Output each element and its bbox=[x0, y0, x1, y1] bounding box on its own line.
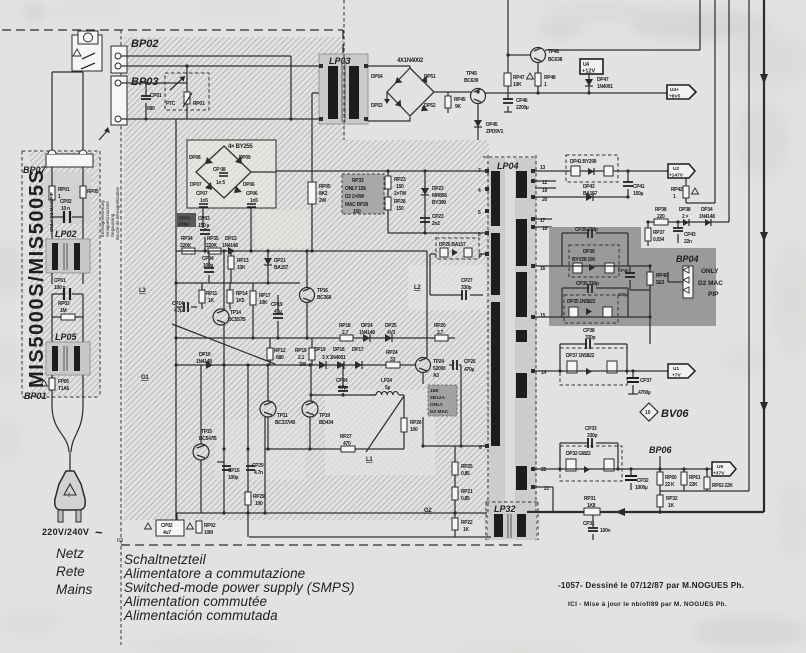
svg-text:220K: 220K bbox=[180, 243, 191, 249]
svg-text:U4+: U4+ bbox=[670, 87, 679, 93]
wire pin16 bbox=[535, 265, 650, 267]
svg-text:1n5: 1n5 bbox=[200, 198, 208, 204]
svg-text:DP24: DP24 bbox=[361, 323, 373, 329]
svg-text:2n2: 2n2 bbox=[432, 221, 440, 227]
light patch mid left bbox=[215, 420, 305, 480]
wire degauss left bbox=[51, 72, 53, 154]
svg-text:CP29: CP29 bbox=[252, 463, 264, 469]
wire top join bbox=[52, 71, 83, 73]
resistor RP02 bbox=[187, 523, 194, 529]
svg-text:DP39: DP39 bbox=[583, 249, 595, 255]
PTC arrow bbox=[170, 77, 184, 90]
stub pin18 bbox=[535, 226, 552, 228]
LP04 pin squares left bbox=[485, 169, 489, 173]
svg-text:220K: 220K bbox=[206, 243, 217, 249]
svg-text:2200µ: 2200µ bbox=[516, 105, 529, 111]
diode DP41 bbox=[588, 168, 594, 175]
svg-text:+8V5: +8V5 bbox=[669, 94, 681, 100]
svg-text:Alimentation commutée: Alimentation commutée bbox=[123, 594, 267, 609]
svg-text:+12V: +12V bbox=[582, 69, 595, 75]
svg-text:G1: G1 bbox=[141, 375, 149, 381]
resistor RP28 bbox=[385, 197, 391, 210]
pointer L1 bbox=[366, 396, 404, 452]
svg-text:LP32: LP32 bbox=[494, 504, 516, 514]
svg-text:470: 470 bbox=[343, 441, 351, 447]
svg-text:RP12: RP12 bbox=[274, 348, 286, 354]
svg-text:150: 150 bbox=[396, 206, 404, 212]
svg-text:DP17: DP17 bbox=[352, 347, 364, 353]
svg-text:ZPD9V1: ZPD9V1 bbox=[486, 129, 504, 135]
diode DP34 bbox=[705, 219, 711, 226]
connector BP02 bbox=[111, 46, 127, 73]
resistor RP14 bbox=[229, 283, 231, 309]
svg-text:TP45: TP45 bbox=[466, 71, 477, 77]
wire diode row y222 bbox=[648, 221, 729, 223]
resistor RP29 bbox=[245, 492, 251, 505]
resistor RP23 bbox=[387, 171, 389, 197]
svg-text:+147V: +147V bbox=[669, 173, 684, 179]
dashed box DP37 bbox=[560, 348, 627, 385]
wire TP24 down to pin8 bbox=[423, 372, 485, 446]
wire BP02 bottom rail bbox=[127, 65, 321, 67]
svg-text:DP53: DP53 bbox=[371, 103, 383, 109]
capacitor CP41 bbox=[627, 171, 629, 197]
svg-text:4.7n: 4.7n bbox=[254, 470, 263, 476]
stub pin12 bbox=[535, 180, 556, 182]
svg-text:RP03: RP03 bbox=[58, 301, 70, 307]
svg-text:CP41: CP41 bbox=[633, 184, 645, 190]
svg-text:CP03: CP03 bbox=[179, 216, 191, 221]
svg-text:CP02: CP02 bbox=[60, 199, 72, 205]
resistor RP37 bbox=[647, 222, 649, 246]
svg-text:LP03: LP03 bbox=[329, 56, 351, 66]
svg-text:1N4148: 1N4148 bbox=[699, 214, 715, 220]
svg-text:400µ: 400µ bbox=[618, 292, 628, 297]
resistor RP05a bbox=[80, 186, 86, 198]
svg-text:DP08: DP08 bbox=[189, 155, 201, 161]
capacitor CP32 bbox=[630, 469, 632, 490]
junction dots control bbox=[174, 281, 177, 284]
bridge box BY255 bbox=[187, 140, 276, 208]
svg-text:DP18: DP18 bbox=[333, 347, 345, 353]
svg-text:DP13: DP13 bbox=[225, 236, 237, 242]
svg-text:DP32 GI822: DP32 GI822 bbox=[566, 451, 591, 457]
capacitor CP23 bbox=[420, 218, 430, 222]
resistor RP31 bbox=[584, 508, 600, 515]
svg-text:L2: L2 bbox=[414, 285, 421, 291]
svg-text:1K8: 1K8 bbox=[587, 503, 596, 509]
resistor RP60 bbox=[659, 469, 661, 491]
capacitor CP15 bbox=[217, 461, 224, 463]
svg-text:BC337/40: BC337/40 bbox=[275, 420, 296, 426]
resistor RP48 bbox=[537, 62, 539, 93]
svg-text:BP04: BP04 bbox=[676, 254, 699, 264]
svg-text:RP63 22K: RP63 22K bbox=[712, 483, 733, 489]
svg-text:DP06: DP06 bbox=[243, 182, 255, 188]
svg-text:+7V: +7V bbox=[672, 373, 681, 379]
svg-text:L1: L1 bbox=[366, 457, 373, 463]
capacitor CP02b bbox=[176, 513, 178, 521]
svg-text:22K: 22K bbox=[689, 482, 698, 488]
svg-text:2W: 2W bbox=[319, 198, 326, 204]
svg-text:RP42: RP42 bbox=[671, 187, 683, 193]
wire pin22 +37V rail bbox=[535, 468, 712, 470]
wire BP07 to LP02 right bbox=[82, 167, 84, 239]
svg-text:ONLY: ONLY bbox=[430, 402, 444, 408]
svg-text:100: 100 bbox=[410, 427, 418, 433]
svg-text:CP39 330p: CP39 330p bbox=[575, 227, 598, 233]
svg-text:CP15: CP15 bbox=[228, 468, 240, 474]
dash-dot bottom border bbox=[121, 544, 525, 546]
stub pin17 bbox=[535, 218, 552, 220]
svg-text:1N4001: 1N4001 bbox=[597, 84, 613, 90]
svg-text:150: 150 bbox=[353, 209, 361, 215]
svg-text:LP04: LP04 bbox=[497, 161, 519, 171]
resistor RP13 bbox=[230, 251, 232, 283]
resistor RP19 bbox=[311, 338, 313, 365]
dashed box PTC bbox=[165, 73, 209, 110]
svg-text:1N4148: 1N4148 bbox=[359, 330, 375, 336]
svg-text:CP26: CP26 bbox=[464, 359, 476, 365]
svg-text:MIS5000S/MIS5005S: MIS5000S/MIS5005S bbox=[26, 168, 48, 388]
svg-text:0,85: 0,85 bbox=[461, 471, 470, 477]
svg-text:RP35: RP35 bbox=[207, 236, 219, 242]
svg-text:U2: U2 bbox=[673, 166, 679, 172]
output flag U2 +147V bbox=[668, 164, 695, 178]
svg-text:CP32: CP32 bbox=[637, 478, 649, 484]
svg-text:100: 100 bbox=[255, 501, 263, 507]
svg-text:PIP: PIP bbox=[708, 291, 719, 298]
svg-text:1n 5: 1n 5 bbox=[216, 180, 225, 186]
svg-text:Schaltnetzteil: Schaltnetzteil bbox=[124, 552, 207, 567]
transformer LP32 bbox=[486, 502, 538, 540]
svg-text:+37V: +37V bbox=[713, 471, 725, 477]
svg-text:5E3: 5E3 bbox=[656, 280, 665, 286]
svg-text:10K: 10K bbox=[259, 300, 268, 306]
svg-text:TP11: TP11 bbox=[277, 413, 288, 419]
hatched mains module bbox=[30, 152, 99, 396]
wire TP16 vertical bbox=[306, 251, 308, 338]
wire pin14 +7V rail bbox=[535, 370, 668, 372]
svg-text:~: ~ bbox=[95, 525, 103, 540]
svg-text:19: 19 bbox=[542, 188, 547, 194]
rail y338 bbox=[176, 337, 455, 339]
svg-text:CP23: CP23 bbox=[432, 214, 444, 220]
svg-text:RP38: RP38 bbox=[655, 207, 667, 213]
svg-text:10 n: 10 n bbox=[61, 206, 70, 212]
svg-text:U4: U4 bbox=[583, 62, 589, 68]
svg-text:2.7: 2.7 bbox=[342, 330, 349, 336]
svg-text:BA157: BA157 bbox=[274, 265, 289, 271]
transistor TP11 bbox=[260, 401, 276, 417]
svg-text:RP26: RP26 bbox=[410, 420, 422, 426]
wire pin15 bbox=[535, 316, 650, 318]
svg-text:DP34: DP34 bbox=[701, 207, 713, 213]
svg-text:RP23: RP23 bbox=[394, 177, 406, 183]
beacon BV06 bbox=[640, 403, 658, 421]
bottom rail y537 bbox=[249, 536, 491, 538]
wire bridge out right bbox=[251, 171, 276, 173]
wire TP48 base left bbox=[508, 54, 531, 56]
option box RP33 bbox=[342, 174, 384, 214]
svg-text:13: 13 bbox=[540, 165, 545, 171]
wire BP03 to LP03 bottom bbox=[127, 118, 321, 120]
resistor RP01 bbox=[49, 186, 55, 200]
svg-text:RP11: RP11 bbox=[206, 291, 218, 297]
bottom rail y513 bbox=[176, 512, 487, 514]
bridge DP06-DP09 bbox=[196, 146, 251, 198]
svg-text:1K: 1K bbox=[668, 503, 674, 509]
svg-text:DP51: DP51 bbox=[424, 74, 436, 80]
svg-text:CP01: CP01 bbox=[150, 93, 162, 99]
svg-text:4u7: 4u7 bbox=[163, 530, 171, 536]
capacitor CP43 bbox=[677, 222, 679, 243]
dashed box DP41 bbox=[566, 155, 618, 182]
svg-text:5µ: 5µ bbox=[385, 385, 390, 391]
svg-text:33: 33 bbox=[390, 357, 395, 363]
svg-text:3 X 1N4001: 3 X 1N4001 bbox=[322, 355, 346, 361]
svg-text:100p: 100p bbox=[228, 475, 238, 481]
wire row y395 bbox=[311, 394, 376, 396]
svg-text:PTC: PTC bbox=[166, 101, 176, 107]
svg-text:1M: 1M bbox=[60, 308, 66, 314]
svg-text:RP28: RP28 bbox=[394, 199, 406, 205]
svg-text:DP26 BA157: DP26 BA157 bbox=[439, 242, 466, 248]
plug prong left bbox=[58, 510, 63, 522]
svg-text:MR858: MR858 bbox=[432, 193, 447, 199]
bus line x749 bbox=[660, 0, 749, 491]
vertical x248 bbox=[247, 365, 249, 537]
svg-text:1n5: 1n5 bbox=[250, 198, 258, 204]
dashed box DP32 bbox=[560, 446, 622, 481]
svg-text:RP27: RP27 bbox=[340, 434, 352, 440]
rail y251 bbox=[176, 250, 427, 252]
svg-text:BC547B: BC547B bbox=[199, 436, 217, 442]
svg-text:DP45: DP45 bbox=[486, 122, 498, 128]
vertical from top x508 bbox=[507, 0, 509, 93]
svg-text:RP01: RP01 bbox=[58, 187, 70, 193]
svg-text:150 µ: 150 µ bbox=[198, 223, 210, 229]
svg-text:RP25: RP25 bbox=[461, 464, 473, 470]
svg-text:10M: 10M bbox=[204, 530, 213, 536]
resistor RP18 bbox=[340, 335, 353, 341]
svg-text:RP01: RP01 bbox=[193, 101, 205, 107]
transformer LP04 body bbox=[489, 158, 536, 540]
svg-text:DP54: DP54 bbox=[371, 74, 383, 80]
resistor RP21 bbox=[452, 487, 458, 500]
transformer LP03 bbox=[319, 54, 368, 124]
svg-text:D2 MAC: D2 MAC bbox=[430, 409, 449, 415]
svg-text:4.7µ: 4.7µ bbox=[174, 308, 183, 314]
vertical x265 bbox=[264, 417, 266, 513]
wire bridge to TP45 bbox=[434, 91, 471, 93]
wire TP48 collector to top bus bbox=[545, 0, 700, 50]
capacitor CP29 bbox=[246, 466, 255, 470]
svg-text:Mains: Mains bbox=[56, 582, 93, 597]
svg-text:20: 20 bbox=[542, 197, 547, 203]
resistor RP40 bbox=[649, 266, 651, 344]
svg-text:100n: 100n bbox=[600, 528, 610, 534]
vertical TP11-TP19 bbox=[268, 365, 311, 449]
LP04 primary winding bars bbox=[491, 171, 500, 226]
plug prong right bbox=[76, 510, 81, 522]
bus line x715 bbox=[714, 0, 716, 203]
dashed border left column bbox=[120, 30, 122, 645]
svg-text:ICI: ICI bbox=[117, 538, 123, 544]
svg-text:DP23: DP23 bbox=[432, 186, 444, 192]
svg-text:BP02: BP02 bbox=[131, 38, 159, 50]
main + rail to LP04 pin3 bbox=[276, 170, 485, 172]
svg-text:4V3: 4V3 bbox=[387, 330, 396, 336]
resistor RP45 bbox=[445, 96, 451, 108]
svg-text:RP21: RP21 bbox=[461, 489, 473, 495]
wire LP03 to bridge top bbox=[368, 66, 410, 69]
svg-text:U1: U1 bbox=[673, 366, 679, 372]
transistor TP15 bbox=[193, 444, 209, 460]
svg-text:!: ! bbox=[68, 493, 70, 499]
svg-text:RP31: RP31 bbox=[584, 496, 596, 502]
svg-text:DP25: DP25 bbox=[385, 323, 397, 329]
wire BP02 top bbox=[127, 56, 291, 119]
wire pin21 bbox=[535, 487, 553, 512]
svg-text:150µ: 150µ bbox=[633, 191, 643, 197]
wire LP03 to bridge bottom bbox=[368, 117, 410, 121]
svg-text:CP24: CP24 bbox=[336, 378, 348, 384]
resistor RP17 bbox=[252, 283, 254, 338]
pointer arrow to BP03 bbox=[99, 130, 108, 140]
LP04 secondary winding bars bbox=[516, 171, 527, 198]
svg-text:22n: 22n bbox=[684, 239, 692, 245]
svg-text:RP61: RP61 bbox=[689, 475, 701, 481]
resistor RP42 bbox=[686, 178, 715, 203]
svg-text:CP02: CP02 bbox=[161, 523, 173, 529]
svg-text:CP01: CP01 bbox=[54, 278, 66, 284]
svg-text:CP37: CP37 bbox=[640, 378, 652, 384]
wire y283 bbox=[176, 282, 300, 284]
svg-text:RP14: RP14 bbox=[236, 291, 248, 297]
svg-text:10K: 10K bbox=[513, 82, 522, 88]
bus line x764 with arrows bbox=[763, 0, 765, 512]
svg-text:RP22: RP22 bbox=[461, 520, 473, 526]
rail y365 bbox=[176, 364, 416, 366]
resistor RP20 bbox=[435, 335, 448, 341]
diode DP47 bbox=[588, 74, 590, 93]
svg-text:52000: 52000 bbox=[433, 366, 446, 372]
svg-text:-1057- Dessiné le 07/12/87 par: -1057- Dessiné le 07/12/87 par M.NOGUES … bbox=[558, 581, 744, 590]
svg-text:DP07: DP07 bbox=[190, 182, 202, 188]
resistor RP12 bbox=[269, 338, 271, 365]
svg-text:CP 08: CP 08 bbox=[213, 167, 226, 173]
svg-text:2.7: 2.7 bbox=[437, 330, 444, 336]
resistor RP26 bbox=[403, 395, 405, 449]
node bbox=[289, 117, 292, 120]
svg-text:RP34: RP34 bbox=[181, 236, 193, 242]
svg-text:Rete: Rete bbox=[56, 564, 85, 579]
hatched schematic area bbox=[124, 37, 489, 520]
svg-text:RP18: RP18 bbox=[339, 323, 351, 329]
svg-text:CP33: CP33 bbox=[585, 426, 597, 432]
option box 15E D2MAC bbox=[428, 385, 457, 416]
svg-text:DP41 BY299: DP41 BY299 bbox=[570, 159, 597, 165]
svg-text:1K: 1K bbox=[208, 298, 214, 304]
svg-text:RP45: RP45 bbox=[454, 97, 466, 103]
svg-text:3W: 3W bbox=[299, 362, 306, 368]
svg-text:LP05: LP05 bbox=[55, 332, 78, 342]
svg-text:DP10: DP10 bbox=[199, 352, 211, 358]
svg-text:TP15: TP15 bbox=[201, 429, 212, 435]
resistor RP47 bbox=[504, 73, 511, 86]
capacitor CP37 bbox=[632, 371, 634, 394]
svg-text:BP01: BP01 bbox=[24, 391, 47, 401]
svg-text:CP03: CP03 bbox=[198, 216, 210, 222]
svg-text:RP05: RP05 bbox=[319, 184, 331, 190]
svg-text:CP46: CP46 bbox=[516, 98, 528, 104]
svg-text:RP20: RP20 bbox=[434, 323, 446, 329]
mains cord bbox=[52, 405, 83, 472]
dark box CP03x bbox=[177, 213, 196, 227]
svg-text:RP33: RP33 bbox=[352, 178, 364, 184]
svg-text:TP14: TP14 bbox=[230, 310, 241, 316]
svg-text:CP07: CP07 bbox=[196, 191, 208, 197]
svg-text:DP35 1N5822: DP35 1N5822 bbox=[567, 299, 596, 305]
svg-text:DP52: DP52 bbox=[424, 103, 436, 109]
svg-text:BD434: BD434 bbox=[319, 420, 334, 426]
capacitor CP31 bbox=[592, 515, 594, 540]
svg-text:DP19: DP19 bbox=[314, 347, 326, 353]
svg-text:TP16: TP16 bbox=[317, 288, 328, 294]
dashed frame corner vertical bbox=[342, 30, 344, 53]
svg-text:FP05: FP05 bbox=[58, 379, 69, 385]
svg-text:220µ: 220µ bbox=[179, 222, 190, 227]
diode DP23 bbox=[424, 171, 426, 233]
wire BP06 stub bbox=[659, 456, 661, 469]
svg-text:T1A6: T1A6 bbox=[58, 386, 70, 392]
svg-text:16: 16 bbox=[540, 266, 545, 272]
svg-text:Alimentación commutada: Alimentación commutada bbox=[123, 608, 278, 623]
svg-text:LP24: LP24 bbox=[381, 378, 392, 384]
transistor TP14 bbox=[213, 309, 229, 325]
svg-text:LP02: LP02 bbox=[55, 229, 77, 239]
svg-text:ICI - Mise à jour le nb/of/89: ICI - Mise à jour le nb/of/89 par M. NOG… bbox=[568, 601, 727, 608]
svg-text:1K: 1K bbox=[463, 527, 469, 533]
svg-text:TP24: TP24 bbox=[433, 359, 444, 365]
light patch below bridge bbox=[255, 210, 310, 248]
transistor TP16 bbox=[300, 288, 315, 303]
diode DP38 bbox=[683, 219, 689, 226]
svg-text:15E: 15E bbox=[430, 388, 439, 394]
svg-text:150: 150 bbox=[396, 184, 404, 190]
svg-text:Netz: Netz bbox=[56, 546, 84, 561]
regulator box U4 +12V bbox=[580, 59, 603, 74]
svg-text:RP47: RP47 bbox=[513, 75, 525, 81]
svg-text:RP13: RP13 bbox=[237, 258, 249, 264]
svg-text:BV06: BV06 bbox=[661, 408, 689, 420]
svg-text:9K: 9K bbox=[455, 104, 461, 110]
svg-text:ONLY D2 MAC/PIP: ONLY D2 MAC/PIP bbox=[49, 192, 54, 232]
vertical x201 bbox=[200, 365, 202, 513]
svg-text:L3: L3 bbox=[139, 288, 146, 294]
svg-text:RP37: RP37 bbox=[653, 230, 665, 236]
wire pin20 bbox=[535, 196, 628, 198]
svg-text:0,85: 0,85 bbox=[461, 496, 470, 502]
svg-text:BP03: BP03 bbox=[131, 76, 159, 88]
svg-text:CP31: CP31 bbox=[583, 521, 595, 527]
svg-text:RP17: RP17 bbox=[259, 293, 271, 299]
wire row y449 bbox=[265, 448, 404, 450]
dashed box DP39 bbox=[569, 245, 619, 277]
svg-text:CP27: CP27 bbox=[461, 278, 473, 284]
svg-text:RP24: RP24 bbox=[386, 350, 398, 356]
